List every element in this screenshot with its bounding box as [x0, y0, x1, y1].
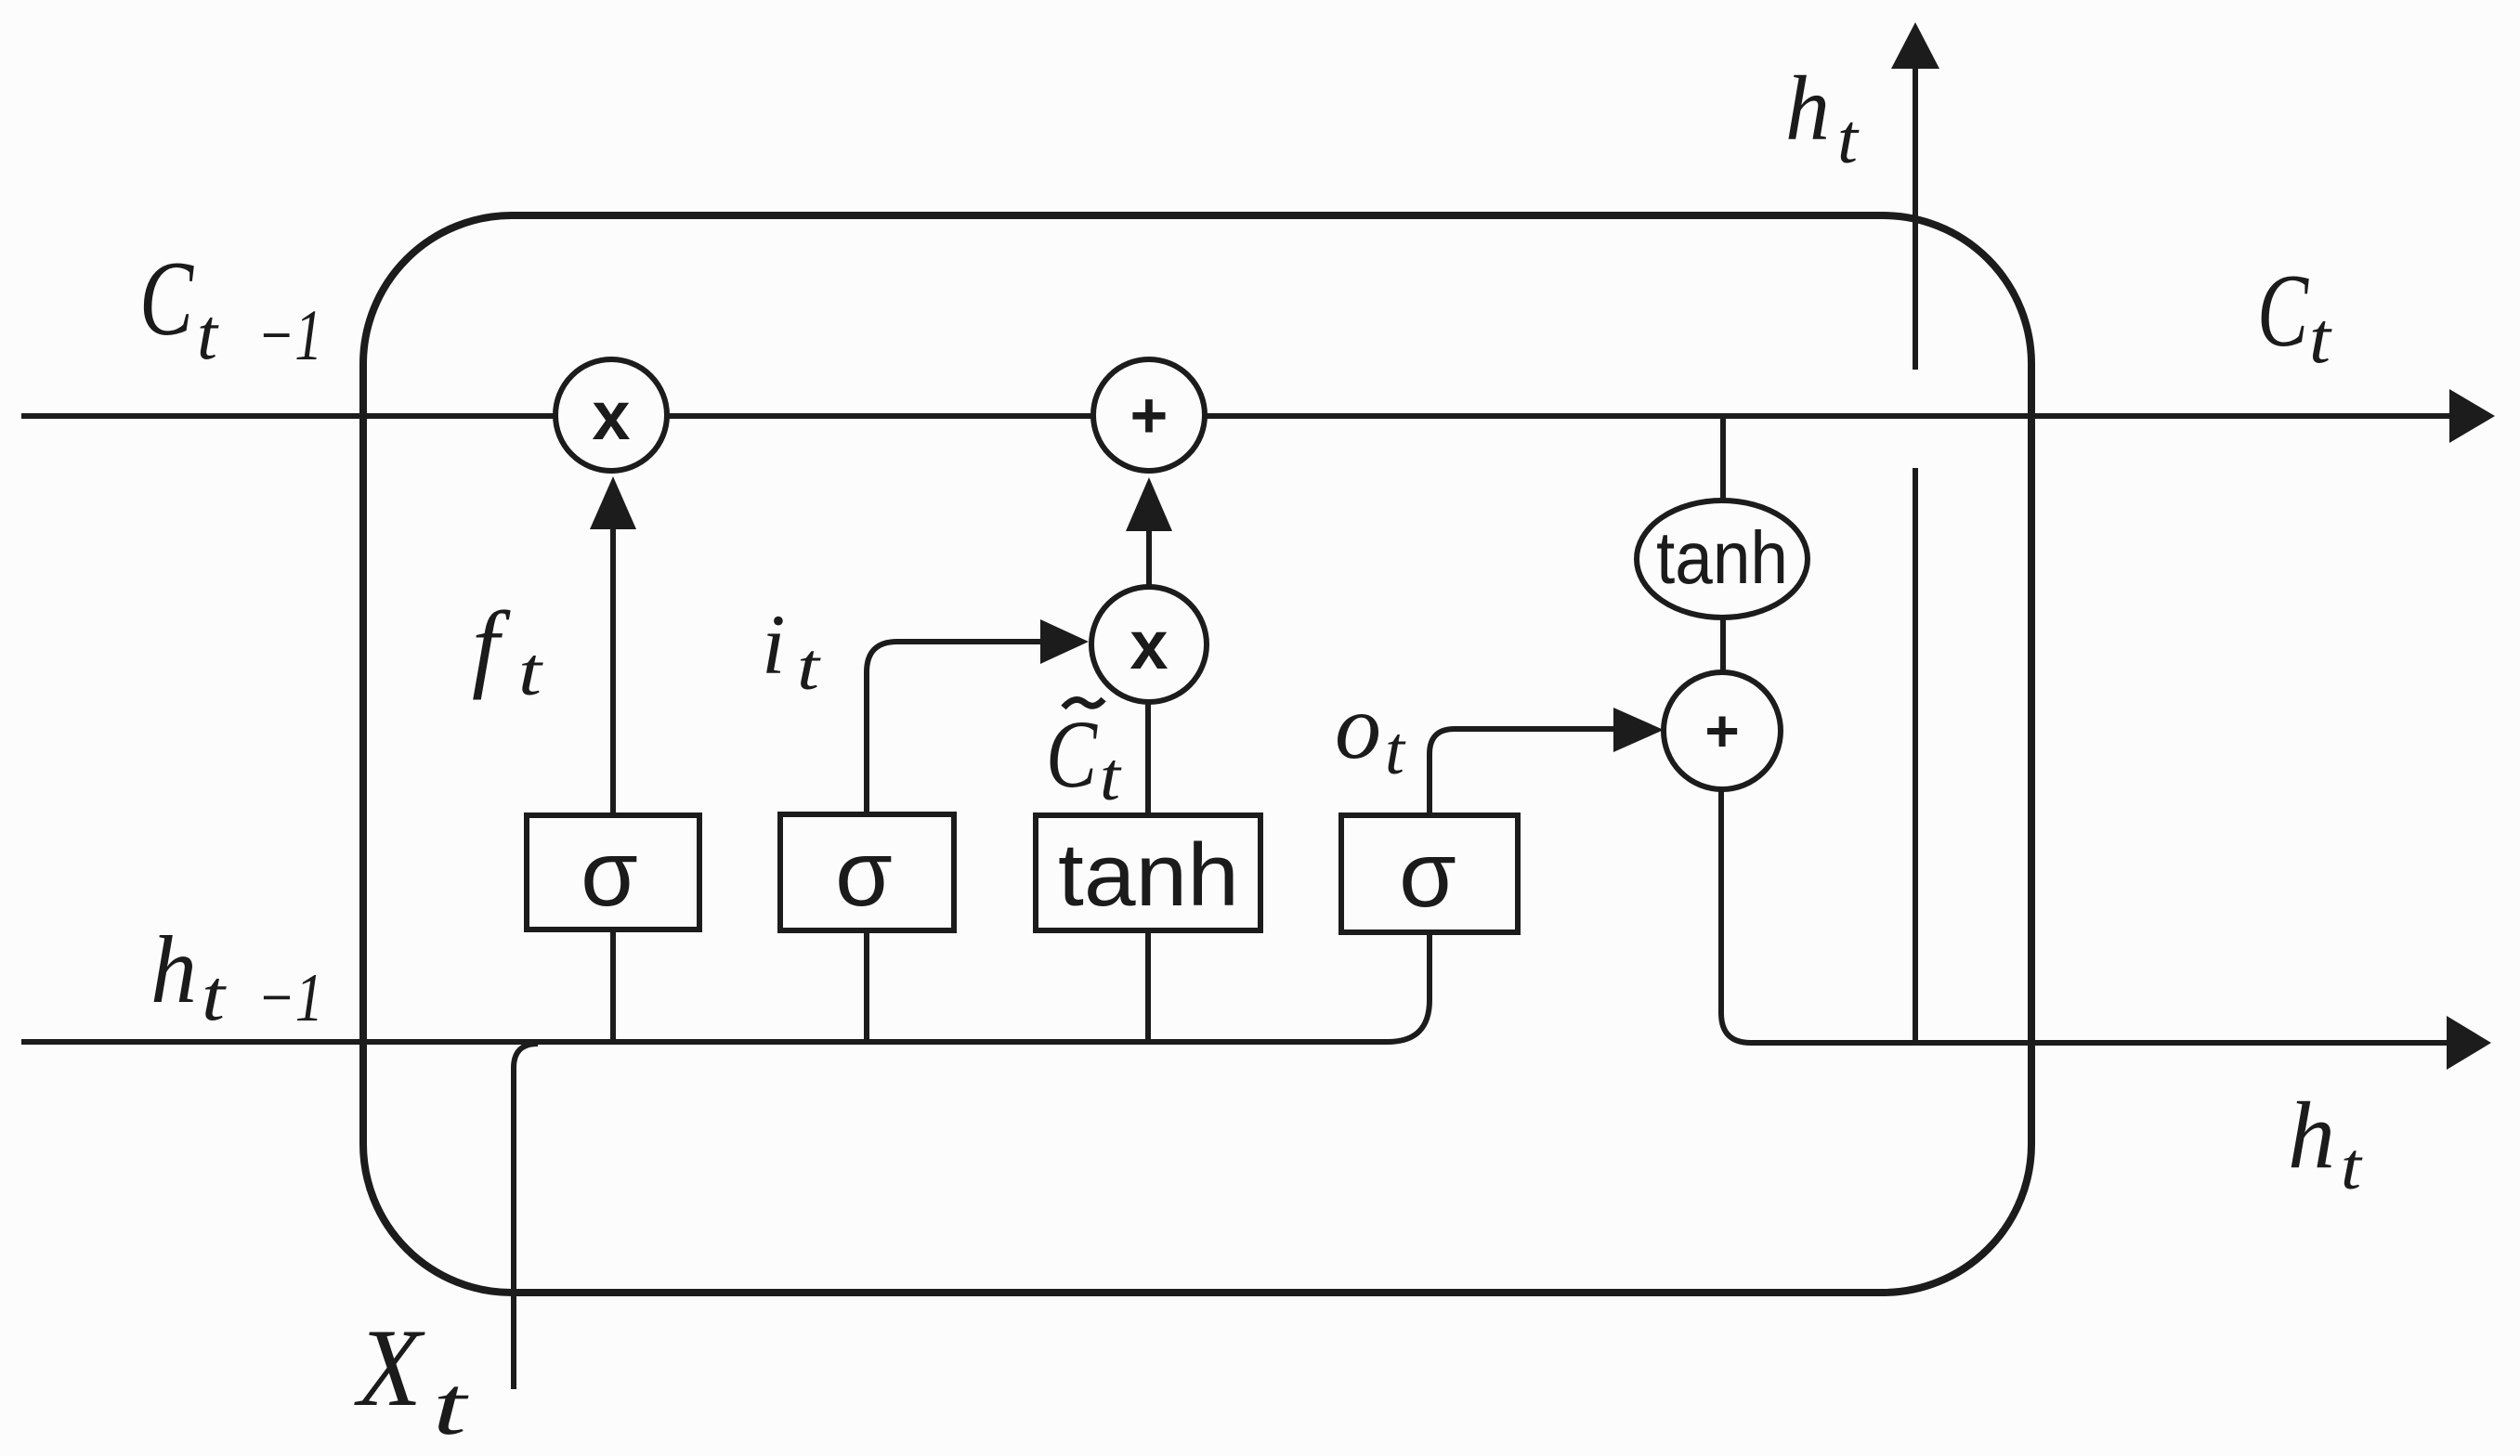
wire: h_t upward branch (gap at C line crossing) [1913, 468, 1918, 1043]
svg-text:h: h [2288, 1083, 2335, 1189]
svg-text:i: i [762, 597, 786, 692]
wire: i_t elbow from sigma2 to x2 circle with arrow [867, 642, 1040, 814]
wire: X_t input line merging into h line [514, 1044, 538, 1389]
wire: tanh ellipse to + circle [1720, 617, 1726, 672]
wire: x2 to + circle with arrow [1146, 529, 1152, 586]
svg-text:t: t [2341, 1129, 2363, 1203]
arrowhead h_t right output [2447, 1016, 2491, 1070]
svg-text:x: x [592, 377, 630, 454]
svg-text:t: t [1837, 100, 1860, 178]
wire: tanh box stem below [1145, 930, 1151, 1042]
wire: hidden state line h (left portion, curves up into sigma3) [21, 932, 1430, 1042]
arrowhead h_t top output [1891, 22, 1939, 69]
svg-text:σ: σ [581, 822, 638, 926]
gate box sigma1 (forget gate) [527, 815, 699, 929]
svg-text:t: t [518, 634, 544, 710]
svg-text:σ: σ [1399, 823, 1456, 927]
svg-text:t: t [202, 955, 228, 1035]
svg-text:t: t [433, 1360, 469, 1452]
svg-text:σ: σ [835, 822, 893, 926]
svg-text:h: h [150, 916, 197, 1023]
svg-text:x: x [1129, 606, 1168, 683]
wire: sigma1 to x1 circle with arrow (f_t) [610, 527, 616, 815]
svg-text:C: C [1046, 701, 1098, 808]
svg-text:tanh: tanh [1058, 825, 1239, 925]
svg-text:X: X [354, 1306, 425, 1429]
svg-text:−1: −1 [257, 294, 322, 375]
wire: h_t output from + circle down and right [1721, 789, 2447, 1043]
arrowhead C_t output [2449, 389, 2495, 443]
svg-text:t: t [197, 293, 219, 374]
LSTM cell body rounded rectangle [363, 215, 2031, 1293]
svg-text:C: C [2257, 253, 2309, 369]
svg-text:t: t [797, 630, 821, 704]
add node + on C line [1093, 359, 1205, 471]
svg-text:t: t [1385, 713, 1406, 789]
svg-text:t: t [2309, 297, 2332, 378]
multiply node x2 (candidate) [1091, 587, 1207, 702]
svg-text:+: + [1704, 697, 1739, 764]
wire: cell state line C (horizontal, y=448) [21, 413, 2449, 419]
svg-text:h: h [1785, 57, 1830, 160]
svg-text:o: o [1335, 675, 1381, 778]
gate box sigma3 (output gate) [1341, 815, 1518, 932]
svg-text:−1: −1 [257, 960, 323, 1036]
wire: sigma1 stem below box [610, 929, 616, 1042]
gate box sigma2 (input gate) [780, 814, 954, 930]
wire: sigma2 stem below box [864, 930, 869, 1042]
svg-text:tanh: tanh [1656, 516, 1788, 599]
wire: tanh box to x2 circle [1145, 702, 1151, 815]
wire: C line stem down to tanh ellipse [1720, 416, 1726, 500]
svg-text:C: C [139, 240, 194, 358]
gate box tanh (candidate gate) [1036, 815, 1260, 930]
svg-text:+: + [1130, 379, 1169, 451]
tanh ellipse (output activation) [1637, 500, 1808, 617]
multiply node x1 on C line [555, 359, 667, 471]
wire: o_t elbow from sigma3 to right + circle with arrow [1430, 729, 1613, 815]
svg-text:t: t [1100, 739, 1123, 815]
output add node + (right) [1664, 672, 1781, 789]
